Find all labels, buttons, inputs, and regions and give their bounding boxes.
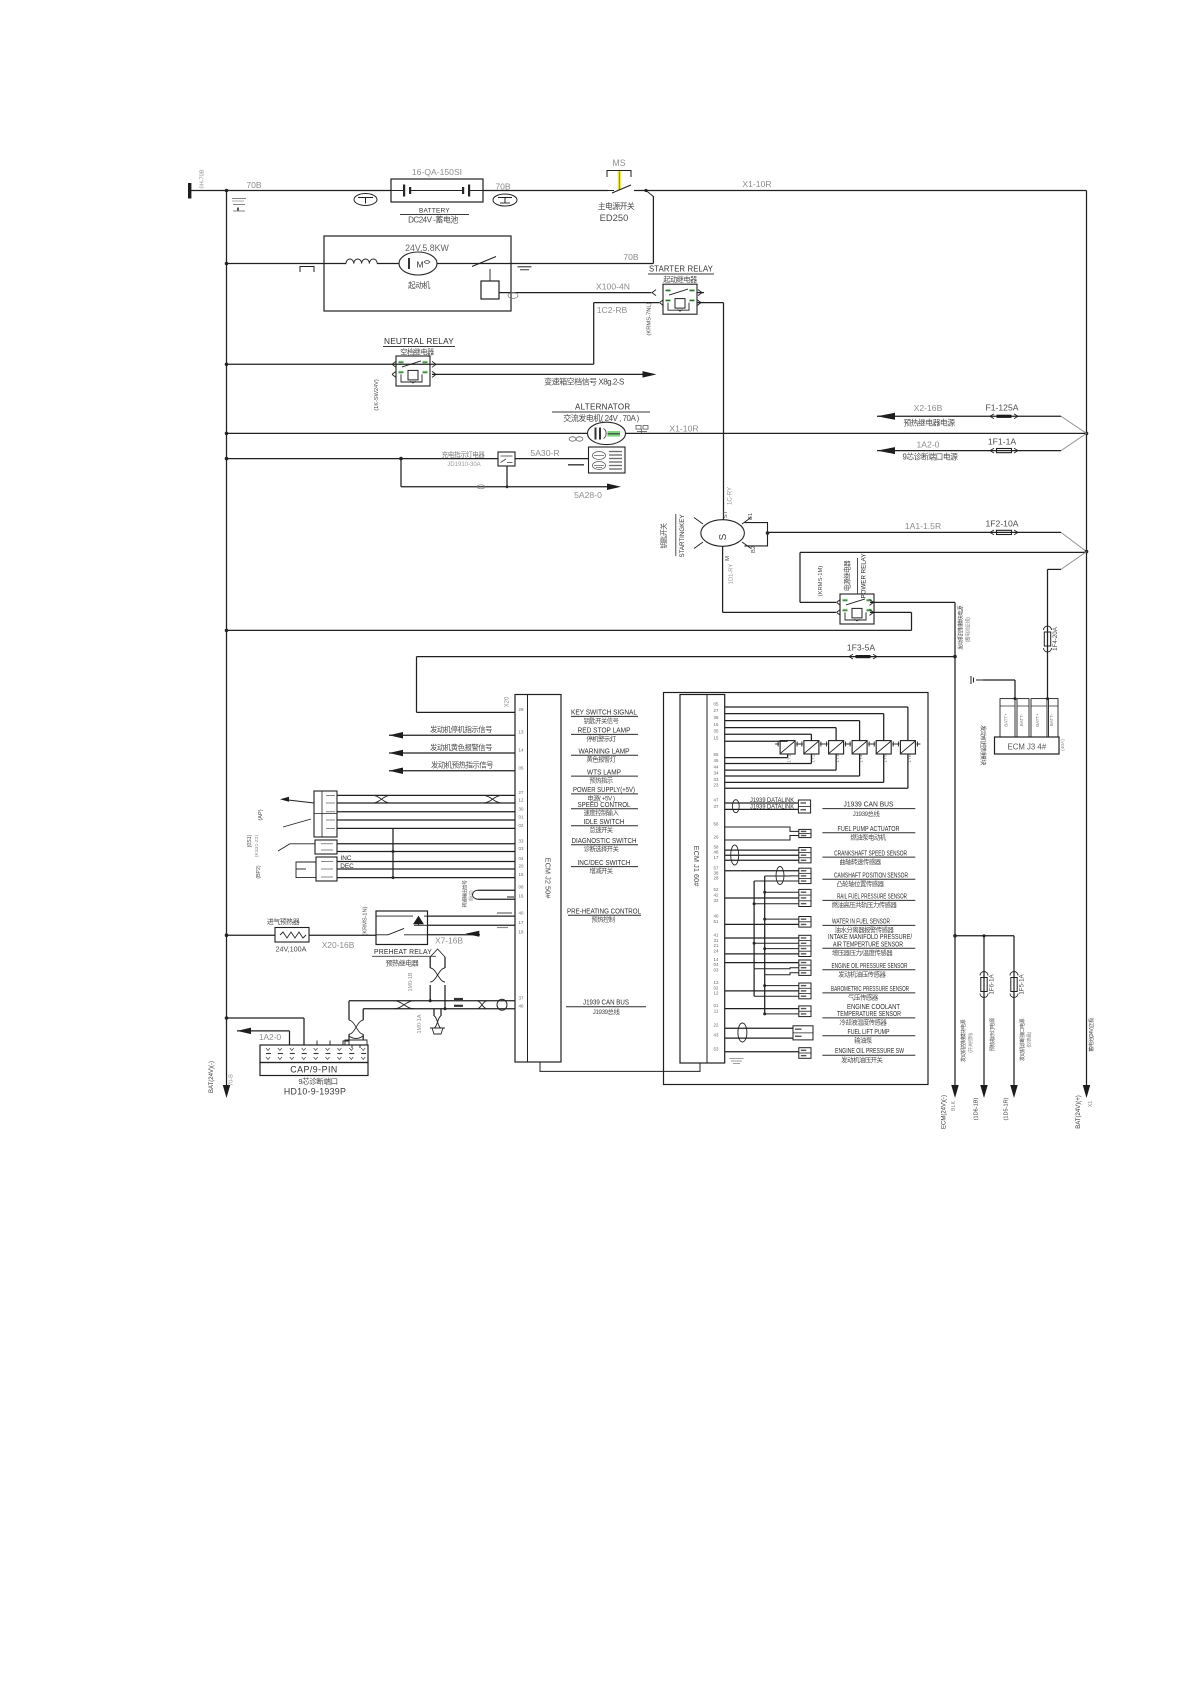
svg-text:BLK: BLK bbox=[951, 1101, 957, 1112]
svg-text:充电指示灯电器: 充电指示灯电器 bbox=[442, 450, 486, 459]
svg-text:IDLE SWITCH: IDLE SWITCH bbox=[584, 819, 625, 826]
connector J1939 datalink 2-pin bbox=[798, 800, 810, 813]
svg-text:DIAGNOSTIC SWITCH: DIAGNOSTIC SWITCH bbox=[572, 838, 637, 845]
svg-text:13: 13 bbox=[519, 730, 524, 735]
wire CAN branch up to preheat zone bbox=[429, 999, 432, 1002]
actuator fuel pump connector bbox=[799, 829, 811, 837]
arrow on X7-16B wire bbox=[465, 931, 479, 937]
wire CAN risers to diagnostic connector bbox=[348, 1001, 350, 1020]
svg-text:40: 40 bbox=[519, 911, 524, 916]
svg-text:CAP/9-PIN: CAP/9-PIN bbox=[290, 1065, 338, 1075]
relay K2 neutral relay bbox=[396, 356, 430, 386]
wire battery to starter motor y=263.5 bbox=[225, 262, 229, 266]
wire X1-10R alternator to buses y=433.4 bbox=[225, 432, 229, 436]
wire 5A30-R charge relay to alternator bbox=[515, 458, 589, 460]
svg-text:(KS31-Z2): (KS31-Z2) bbox=[254, 835, 260, 858]
wire drop 1D6 x=984 with fuse bbox=[983, 936, 985, 1085]
svg-text:STARTER RELAY: STARTER RELAY bbox=[649, 265, 714, 274]
ground dashes right of starter box bbox=[518, 266, 532, 268]
svg-text:发动机控制模块: 发动机控制模块 bbox=[979, 725, 987, 765]
svg-text:速度控制输入: 速度控制输入 bbox=[584, 808, 620, 817]
alternator terminal box bbox=[589, 447, 626, 473]
injector Y2 bbox=[804, 741, 819, 754]
wires injector supply group bbox=[725, 706, 908, 708]
svg-text:STARTINGKEY: STARTINGKEY bbox=[679, 514, 686, 557]
svg-text:31: 31 bbox=[714, 938, 719, 943]
svg-text:X1: X1 bbox=[1088, 1101, 1094, 1108]
chassis marker at left bus bbox=[232, 198, 246, 200]
svg-text:JD1910-30A: JD1910-30A bbox=[447, 462, 480, 468]
svg-text:17: 17 bbox=[519, 920, 524, 925]
wire top bus from switch to right bus bbox=[634, 190, 1087, 192]
ferrite bead on CAN pair bbox=[497, 999, 507, 1010]
wires engine coolant temperature sensor bbox=[725, 1008, 799, 1010]
relay K3 power relay bbox=[840, 594, 874, 624]
svg-text:08: 08 bbox=[519, 885, 524, 890]
svg-text:ENGINE OIL PRESSURE SENSOR: ENGINE OIL PRESSURE SENSOR bbox=[832, 963, 908, 970]
connector shell on CAN drop bbox=[345, 1036, 367, 1045]
svg-text:INTAKE MANIFOLD PRESSURE/: INTAKE MANIFOLD PRESSURE/ bbox=[828, 934, 912, 941]
tiny parens mark on wire bbox=[508, 293, 518, 299]
wire 5A28-0 to arrow bbox=[401, 486, 608, 488]
sensor water in fuel connector bbox=[799, 917, 811, 928]
svg-text:03: 03 bbox=[714, 967, 719, 972]
svg-text:J1939 DATALINK: J1939 DATALINK bbox=[750, 805, 794, 811]
svg-text:17: 17 bbox=[714, 855, 719, 860]
wire bus branch to diagnostic connector y=1018 bbox=[225, 1016, 229, 1020]
wire starter box to switch drop y=263.5 bbox=[511, 263, 653, 265]
svg-text:起动继电器: 起动继电器 bbox=[663, 275, 697, 284]
svg-text:46: 46 bbox=[519, 1003, 524, 1008]
svg-text:15: 15 bbox=[519, 872, 524, 877]
solenoid coil box of starter bbox=[481, 281, 499, 299]
svg-text:X2-16B: X2-16B bbox=[914, 403, 943, 413]
svg-text:预热继电器电源: 预热继电器电源 bbox=[903, 418, 955, 428]
wires injector return group bbox=[725, 757, 788, 759]
svg-text:(1D6-1B): (1D6-1B) bbox=[974, 1098, 980, 1121]
wire speed pot pin1 y=795.4 bbox=[337, 794, 515, 796]
svg-text:FUEL PUMP ACTUATOR: FUEL PUMP ACTUATOR bbox=[838, 826, 900, 833]
sensor rail fuel pressure connector bbox=[799, 889, 811, 906]
svg-text:01: 01 bbox=[714, 1003, 719, 1008]
wire red stop lamp y=735.2 bbox=[389, 732, 403, 739]
svg-text:PRE-HEATING CONTROL: PRE-HEATING CONTROL bbox=[567, 908, 641, 915]
svg-text:37: 37 bbox=[519, 995, 524, 1000]
wire X7-16B from relay contact bbox=[428, 934, 481, 936]
wire X100-4N starter relay to solenoid y=292.6 bbox=[499, 292, 652, 294]
svg-text:诊断选择开关: 诊断选择开关 bbox=[584, 844, 620, 853]
wire fuel pump actuator pin2 bbox=[725, 836, 799, 841]
wire J1939 datalink low y=809.4 bbox=[725, 808, 799, 810]
connector ECM J3 pin boxes bbox=[1000, 699, 1015, 737]
twisted pair marks speed control bbox=[373, 795, 390, 803]
wire 1A2-0 to diagnostic connector bbox=[237, 1028, 251, 1035]
svg-text:40: 40 bbox=[714, 914, 719, 919]
svg-text:MS: MS bbox=[612, 158, 625, 168]
injector Y3 bbox=[829, 741, 844, 754]
wire speed output jumper pins y=890.2 899.2 bbox=[478, 889, 515, 891]
arrow x984 bottom bbox=[980, 1085, 988, 1098]
wire battery feed to ECM J3 with fuse bbox=[1048, 568, 1062, 570]
sensor barometric pressure connector bbox=[799, 983, 811, 999]
wire left bus vertical (battery negative) x=226.5 bbox=[226, 191, 228, 1086]
svg-text:BAT(24V)(-): BAT(24V)(-) bbox=[209, 1061, 215, 1093]
wire engine oil pressure switch bbox=[725, 1051, 799, 1053]
svg-text:16: 16 bbox=[714, 722, 719, 727]
svg-text:20: 20 bbox=[519, 864, 524, 869]
wire starter relay contact out right stub bbox=[697, 292, 704, 294]
svg-text:21: 21 bbox=[714, 943, 719, 948]
injector Y6 bbox=[900, 741, 915, 754]
svg-text:停机警示灯: 停机警示灯 bbox=[587, 734, 617, 743]
wire CAN stub down with twist bbox=[433, 1009, 435, 1016]
svg-text:M: M bbox=[416, 260, 423, 270]
svg-text:油水分离器报警传感器: 油水分离器报警传感器 bbox=[835, 925, 895, 934]
svg-text:X7-16B: X7-16B bbox=[435, 936, 463, 946]
terminal clamp symbol right bbox=[493, 194, 517, 206]
switch engine oil pressure connector bbox=[799, 1048, 811, 1059]
wire key switch M terminal down bbox=[722, 546, 724, 612]
node bus-left top junction bbox=[225, 189, 229, 193]
svg-text:PREHEAT RELAY: PREHEAT RELAY bbox=[374, 947, 432, 956]
svg-text:J1939总线: J1939总线 bbox=[853, 809, 881, 818]
svg-text:燃油高压共轨压力传感器: 燃油高压共轨压力传感器 bbox=[832, 900, 898, 909]
svg-text:X100-4N: X100-4N bbox=[596, 282, 630, 292]
arrow left bus battery negative bottom bbox=[223, 1085, 231, 1098]
svg-text:26: 26 bbox=[714, 835, 719, 840]
svg-text:5A30-R: 5A30-R bbox=[530, 448, 559, 458]
motor M starter 起动机 bbox=[399, 252, 437, 275]
svg-text:33: 33 bbox=[519, 838, 524, 843]
wire key switch to power relay coil y=612.4 bbox=[723, 611, 836, 613]
svg-text:23: 23 bbox=[714, 783, 719, 788]
sensor camshaft position connector bbox=[799, 868, 811, 883]
svg-text:1F4-20A: 1F4-20A bbox=[1052, 626, 1059, 651]
arrow x955 bottom bbox=[951, 1085, 959, 1098]
svg-text:变速箱空档信号 X8g.2-S: 变速箱空档信号 X8g.2-S bbox=[544, 377, 624, 387]
svg-text:34: 34 bbox=[714, 771, 719, 776]
svg-text:02: 02 bbox=[714, 985, 719, 990]
svg-text:TEMPERATURE SENSOR: TEMPERATURE SENSOR bbox=[837, 1011, 901, 1018]
generator G1 alternator circle bbox=[588, 422, 626, 444]
svg-text:1F6-1A: 1F6-1A bbox=[989, 973, 996, 994]
svg-text:28: 28 bbox=[714, 876, 719, 881]
injector Y4 bbox=[852, 741, 867, 754]
sensor engine coolant temperature connector bbox=[799, 1006, 811, 1017]
svg-text:1A2-0: 1A2-0 bbox=[917, 440, 940, 450]
starter M1 box 24V 5.8KW bbox=[324, 236, 511, 311]
node after MS switch bbox=[644, 189, 647, 192]
wire power relay coil out to ground bus bbox=[870, 611, 912, 613]
svg-text:X1-10R: X1-10R bbox=[742, 179, 771, 189]
node J3 pin tops bbox=[1014, 697, 1017, 700]
wire ECM ground interconnect bbox=[540, 1062, 700, 1071]
svg-text:36: 36 bbox=[714, 715, 719, 720]
svg-text:43: 43 bbox=[714, 1033, 719, 1038]
svg-text:钥匙开关: 钥匙开关 bbox=[659, 523, 668, 549]
arrow 5A28-0 bbox=[607, 484, 621, 491]
svg-text:30: 30 bbox=[519, 806, 524, 811]
svg-text:RAIL FUEL PRESSURE SENSOR: RAIL FUEL PRESSURE SENSOR bbox=[837, 894, 907, 901]
svg-text:45: 45 bbox=[714, 758, 719, 763]
svg-text:J1939 DATALINK: J1939 DATALINK bbox=[750, 798, 794, 804]
key switch output bracket B terminal bbox=[745, 523, 768, 546]
svg-text:输油泵: 输油泵 bbox=[854, 1035, 873, 1044]
svg-text:1C2-RB: 1C2-RB bbox=[597, 305, 628, 315]
wire speed pot pin4 idle y=820 bbox=[337, 819, 515, 821]
fuse F0 16-QA-150SI battery fuse box bbox=[391, 179, 483, 202]
svg-text:NEUTRAL RELAY: NEUTRAL RELAY bbox=[384, 337, 455, 346]
svg-text:气压传感器: 气压传感器 bbox=[848, 992, 879, 1001]
wire dec y=869 bbox=[337, 868, 515, 870]
wires rail fuel pressure sensor bbox=[765, 891, 799, 893]
twisted marker camshaft bbox=[776, 867, 784, 885]
svg-text:CAMSHAFT POSITION SENSOR: CAMSHAFT POSITION SENSOR bbox=[834, 873, 908, 880]
svg-text:主电源开关: 主电源开关 bbox=[598, 201, 635, 211]
svg-text:发动机诊断接口电源: 发动机诊断接口电源 bbox=[1018, 1018, 1026, 1062]
pump fuel lift connector bbox=[793, 1026, 813, 1040]
svg-text:ALTERNATOR: ALTERNATOR bbox=[575, 403, 630, 412]
svg-text:J1939总线: J1939总线 bbox=[593, 1007, 621, 1016]
wire inc y=861.5 bbox=[337, 861, 515, 863]
fuse 1F3-5A bbox=[849, 654, 853, 656]
svg-text:怠速开关: 怠速开关 bbox=[589, 825, 613, 834]
svg-text:BAT(24V)(+): BAT(24V)(+) bbox=[1076, 1095, 1082, 1128]
switch S1 starting key switch bbox=[701, 520, 745, 547]
svg-text:(AP): (AP) bbox=[258, 809, 264, 820]
svg-text:1M0-1A: 1M0-1A bbox=[417, 1014, 423, 1033]
svg-text:5A28-0: 5A28-0 bbox=[574, 490, 602, 500]
wire sensor power branch y=935.8 bbox=[955, 935, 1014, 937]
fuse F1-125A bbox=[990, 414, 994, 416]
svg-text:(开关控制): (开关控制) bbox=[967, 1032, 974, 1052]
wire neutral relay top out to 1C2-RB riser bbox=[392, 361, 396, 364]
wire drop 1D5 x=1014 with fuse bbox=[1013, 936, 1015, 1085]
svg-text:POWER RELAY: POWER RELAY bbox=[861, 554, 868, 599]
svg-text:增压器压力/温度传感器: 增压器压力/温度传感器 bbox=[832, 948, 893, 957]
sensor intake manifold pressure temperature connector bbox=[799, 935, 811, 956]
bracket symbol under wire bbox=[300, 267, 314, 273]
svg-text:预热继电器: 预热继电器 bbox=[386, 959, 419, 968]
svg-text:(40A): (40A) bbox=[1060, 739, 1066, 751]
svg-text:0H-70B: 0H-70B bbox=[200, 169, 206, 188]
wires fuel lift pump bbox=[725, 1027, 793, 1029]
sensor crankshaft speed connector bbox=[799, 848, 811, 863]
svg-text:9芯诊断端口电源: 9芯诊断端口电源 bbox=[903, 452, 959, 462]
svg-text:进气预热器: 进气预热器 bbox=[267, 917, 300, 926]
svg-text:1A1-1.5R: 1A1-1.5R bbox=[905, 521, 941, 531]
svg-text:DC24V -蓄电池: DC24V -蓄电池 bbox=[408, 215, 458, 225]
svg-text:47: 47 bbox=[714, 798, 719, 803]
svg-text:BAROMETRIC PRESSURE SENSOR: BAROMETRIC PRESSURE SENSOR bbox=[831, 986, 909, 993]
wire from battery fuse to main switch bbox=[483, 190, 608, 192]
svg-text:增减开关: 增减开关 bbox=[589, 866, 613, 875]
twisted marker crankshaft bbox=[731, 845, 739, 865]
wire top bus from terminal to battery fuse bbox=[191, 190, 391, 192]
switch blade starter solenoid contact bbox=[472, 257, 496, 267]
svg-text:M: M bbox=[725, 556, 731, 561]
svg-text:B2: B2 bbox=[751, 546, 757, 553]
svg-text:55: 55 bbox=[714, 752, 719, 757]
svg-text:WTS LAMP: WTS LAMP bbox=[587, 769, 621, 776]
svg-text:发动机预热指示信号: 发动机预热指示信号 bbox=[431, 761, 493, 770]
svg-text:1M0-1B: 1M0-1B bbox=[408, 972, 414, 991]
svg-text:70B: 70B bbox=[246, 180, 262, 190]
wire speed pot pin2 y=803 bbox=[337, 802, 515, 804]
svg-text:SPEED CONTROL: SPEED CONTROL bbox=[578, 802, 631, 809]
fuse 1F2-10A bbox=[990, 530, 994, 532]
svg-text:X20: X20 bbox=[505, 696, 511, 707]
svg-text:16: 16 bbox=[519, 894, 524, 899]
svg-text:ECM J2 50#: ECM J2 50# bbox=[544, 858, 553, 900]
svg-text:(1K-SW24V): (1K-SW24V) bbox=[374, 379, 380, 411]
svg-text:ENGINE OIL PRESSURE SW: ENGINE OIL PRESSURE SW bbox=[835, 1048, 904, 1055]
svg-text:51: 51 bbox=[714, 919, 719, 924]
svg-text:交流发电机( 24V , 70A ): 交流发电机( 24V , 70A ) bbox=[563, 413, 639, 423]
wire fuel pump actuator pin1 bbox=[725, 827, 799, 831]
wire ground to J3 pin bbox=[983, 679, 1015, 681]
wire drop from switch to starter feed bbox=[646, 191, 653, 197]
svg-text:钥匙开关信号: 钥匙开关信号 bbox=[584, 716, 619, 725]
connector XP1 speed control potentiometer bbox=[314, 791, 337, 837]
tiny mark at 5A28 junction bbox=[477, 485, 485, 489]
svg-text:(KRMS-1N): (KRMS-1N) bbox=[363, 906, 369, 935]
svg-text:电源继电器: 电源继电器 bbox=[843, 560, 852, 591]
wire 1A1-1.5R key switch feed y=532.4 bbox=[768, 531, 1062, 533]
wires crankshaft speed sensor bbox=[725, 849, 799, 851]
svg-text:35: 35 bbox=[714, 729, 719, 734]
connector X1 CAP/9-PIN diagnostic socket bbox=[260, 1045, 368, 1063]
svg-text:(KRMS-1M): (KRMS-1M) bbox=[818, 566, 824, 597]
svg-text:RED STOP LAMP: RED STOP LAMP bbox=[578, 728, 631, 735]
twisted pair mark CAN 1 bbox=[394, 1001, 414, 1009]
potentiometer wiper arrow bbox=[288, 800, 314, 803]
svg-text:24V,100A: 24V,100A bbox=[276, 945, 307, 954]
svg-text:41: 41 bbox=[714, 933, 719, 938]
svg-text:1C-RY: 1C-RY bbox=[728, 487, 734, 505]
wire diagnostic return y=851.5 bbox=[337, 851, 515, 853]
relay K1 starter relay bbox=[663, 284, 697, 314]
sensor engine oil pressure connector bbox=[799, 960, 811, 975]
svg-text:发动机控制模块电源: 发动机控制模块电源 bbox=[957, 605, 965, 650]
svg-text:12: 12 bbox=[519, 798, 524, 803]
svg-text:27: 27 bbox=[714, 708, 719, 713]
twisted marker ellipse datalink bbox=[732, 800, 739, 813]
wire 1F3-5A ECM key line y=656.6 bbox=[417, 656, 956, 658]
resistor R1 intake preheater bbox=[225, 933, 229, 937]
svg-text:1F1-1A: 1F1-1A bbox=[988, 437, 1016, 447]
svg-text:J1939 CAN BUS: J1939 CAN BUS bbox=[844, 801, 894, 808]
svg-text:S: S bbox=[718, 533, 729, 540]
svg-text:冷却液温度传感器: 冷却液温度传感器 bbox=[839, 1018, 887, 1027]
svg-text:WARNING LAMP: WARNING LAMP bbox=[579, 749, 630, 756]
shield mark below J1 bbox=[729, 1058, 743, 1060]
svg-text:ECM J3 4#: ECM J3 4# bbox=[1008, 743, 1047, 752]
svg-text:(BP2): (BP2) bbox=[256, 865, 262, 879]
wire speed pot pin5 y=828.4 with branch down bbox=[337, 827, 393, 829]
svg-text:X20-16B: X20-16B bbox=[322, 940, 355, 950]
svg-text:ECM J1 60#: ECM J1 60# bbox=[692, 846, 701, 888]
wire X20-16B preheater to relay bbox=[309, 934, 376, 936]
battery negative terminal post bbox=[188, 183, 191, 199]
injector Y1 bbox=[780, 741, 795, 754]
svg-text:18: 18 bbox=[519, 929, 524, 934]
svg-text:BATT+: BATT+ bbox=[1004, 713, 1009, 727]
svg-text:70B: 70B bbox=[623, 252, 639, 262]
wire X2-16B preheat power feed y=416.3 bbox=[877, 413, 895, 420]
connector S2 diagnostic switch bbox=[315, 840, 337, 854]
svg-text:燃油泵电动机: 燃油泵电动机 bbox=[850, 833, 886, 842]
svg-text:发动机停机指示信号: 发动机停机指示信号 bbox=[430, 725, 492, 734]
wire switch common y=877.6 bbox=[337, 877, 515, 879]
ECM U1 engine harness outer box bbox=[664, 693, 929, 1085]
wire wts lamp y=770.8 bbox=[389, 768, 403, 775]
injector Y5 bbox=[876, 741, 891, 754]
svg-text:KEY SWITCH SIGNAL: KEY SWITCH SIGNAL bbox=[571, 710, 637, 717]
relay K6 charge indicator lamp relay bbox=[498, 452, 515, 466]
wire feed from right bus to power relay y=552.4 bbox=[800, 551, 1087, 553]
svg-text:12: 12 bbox=[714, 991, 719, 996]
svg-text:53: 53 bbox=[714, 1046, 719, 1051]
svg-text:(蓄电池正极): (蓄电池正极) bbox=[965, 617, 972, 643]
svg-text:01: 01 bbox=[519, 815, 524, 820]
wire bus to neutral relay y=364.3 bbox=[225, 363, 229, 367]
wires camshaft position sensor bbox=[725, 870, 799, 872]
svg-text:预热控制: 预热控制 bbox=[591, 914, 614, 923]
wire J1939 datalink high y=803 bbox=[725, 802, 799, 804]
svg-text:03: 03 bbox=[519, 846, 524, 851]
svg-text:22: 22 bbox=[714, 1023, 719, 1028]
relay K4 preheat relay bbox=[376, 911, 428, 945]
svg-text:ST: ST bbox=[723, 510, 729, 518]
svg-text:(脉冲): (脉冲) bbox=[468, 890, 475, 901]
svg-text:起动机: 起动机 bbox=[408, 280, 431, 290]
svg-text:05: 05 bbox=[519, 765, 524, 770]
svg-text:曲轴转速传感器: 曲轴转速传感器 bbox=[839, 857, 881, 866]
wire diagnostic switch y=843.8 bbox=[337, 843, 515, 845]
arrow right bus bottom bbox=[1083, 1085, 1091, 1098]
wire 1A2-0 diagnostic port power y=450.6 bbox=[877, 447, 895, 454]
svg-text:70B: 70B bbox=[495, 182, 511, 192]
svg-text:发动机黄色报警信号: 发动机黄色报警信号 bbox=[430, 743, 492, 752]
svg-text:44: 44 bbox=[714, 765, 719, 770]
svg-text:J1939 CAN BUS: J1939 CAN BUS bbox=[583, 999, 629, 1006]
svg-text:预热指示: 预热指示 bbox=[589, 776, 612, 785]
wire warning lamp y=753 bbox=[389, 750, 403, 757]
svg-text:02: 02 bbox=[519, 823, 524, 828]
svg-text:发动机油压传感器: 发动机油压传感器 bbox=[838, 969, 886, 978]
svg-text:1F2-10A: 1F2-10A bbox=[986, 518, 1019, 528]
svg-text:F1-125A: F1-125A bbox=[986, 402, 1019, 412]
svg-text:BATTERY: BATTERY bbox=[419, 208, 450, 215]
wire key switch signal into J2 y=712.4 bbox=[417, 711, 516, 713]
svg-text:转速输出信号: 转速输出信号 bbox=[462, 880, 469, 908]
svg-text:预热指示灯电源: 预热指示灯电源 bbox=[988, 1017, 996, 1051]
svg-text:BATT+: BATT+ bbox=[1035, 713, 1040, 727]
svg-text:AIR TEMPERTURE SENSOR: AIR TEMPERTURE SENSOR bbox=[833, 941, 903, 948]
svg-text:11: 11 bbox=[714, 1008, 719, 1013]
svg-text:14: 14 bbox=[519, 748, 524, 753]
svg-text:发动机控制模块电源: 发动机控制模块电源 bbox=[959, 1019, 967, 1063]
svg-text:32: 32 bbox=[714, 898, 719, 903]
svg-text:ED250: ED250 bbox=[600, 212, 629, 223]
ground symbol at ECM J3 bbox=[970, 676, 972, 684]
wire branch riser x=401 bbox=[400, 459, 402, 487]
wire motor to solenoid switch bbox=[437, 263, 511, 265]
svg-text:33: 33 bbox=[714, 777, 719, 782]
wire sensor supply bus A x=754.1 bbox=[753, 881, 755, 969]
connector ECM J3 4# box bbox=[995, 737, 1060, 754]
